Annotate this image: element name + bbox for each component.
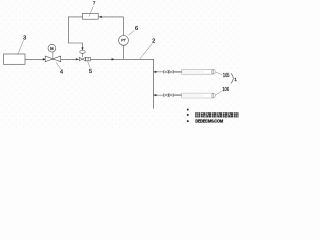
svg-text:M: M <box>50 46 54 51</box>
svg-text:5: 5 <box>89 69 92 75</box>
svg-text:106: 106 <box>222 87 229 94</box>
svg-text:4: 4 <box>60 69 63 75</box>
svg-text:7: 7 <box>93 1 96 7</box>
svg-text:2: 2 <box>152 38 155 44</box>
svg-text:6: 6 <box>135 26 138 32</box>
svg-text:DEDECMS.COM: DEDECMS.COM <box>195 119 224 124</box>
svg-text:105: 105 <box>223 72 230 79</box>
